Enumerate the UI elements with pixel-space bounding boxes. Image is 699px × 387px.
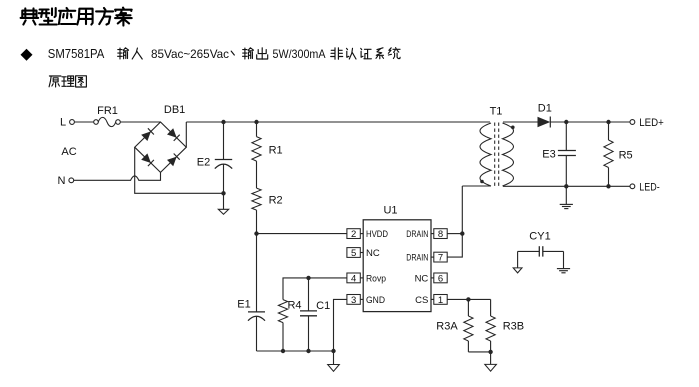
pin 7 DRAIN <box>406 252 447 264</box>
junction HVDD node <box>254 231 258 235</box>
pin 8 DRAIN <box>406 229 447 241</box>
junction top rail E2 <box>221 120 225 124</box>
wire secondary bottom rail <box>503 185 630 187</box>
resistor R3B <box>486 299 495 352</box>
pin 1 CS <box>415 295 447 307</box>
ground primary at GND rail <box>328 351 340 371</box>
wire R3A to R3B bottom <box>468 351 490 353</box>
svg-text:Rovp: Rovp <box>366 274 386 285</box>
svg-text:2: 2 <box>351 229 356 240</box>
junction drain node <box>460 231 464 235</box>
wire FR1 to DB1 <box>120 121 160 123</box>
ground secondary at E3 <box>560 186 573 208</box>
transformer T1 core <box>495 123 499 187</box>
junction C1 Rovp <box>306 276 310 280</box>
capacitor CY1 <box>518 246 564 256</box>
wire L to FR1 <box>74 121 93 123</box>
svg-text:N: N <box>58 175 66 187</box>
svg-text:E1: E1 <box>237 298 250 310</box>
wire HVDD node to E1 <box>256 234 258 312</box>
svg-text:E3: E3 <box>542 148 555 160</box>
fuse FR1 <box>94 117 121 126</box>
pin 6 NC <box>415 273 448 285</box>
svg-text:1: 1 <box>438 295 443 306</box>
wire pin 8 to drain node <box>447 233 462 235</box>
pin 2 HVDD <box>347 229 388 241</box>
bridge rectifier DB1 <box>135 122 187 172</box>
wire top rail <box>186 121 490 123</box>
svg-text:8: 8 <box>438 229 443 240</box>
svg-text:T1: T1 <box>490 106 503 118</box>
svg-text:R5: R5 <box>619 149 633 161</box>
junction CS R3A <box>466 297 470 301</box>
svg-text:LED+: LED+ <box>639 117 664 129</box>
resistor R3A <box>464 299 473 352</box>
wire primary ground rail <box>257 350 334 352</box>
junction E2 negative <box>221 191 225 195</box>
text 、 <box>231 51 234 55</box>
wire D1 to LED+ <box>550 121 630 123</box>
text 输入 <box>118 48 143 59</box>
svg-text:E2: E2 <box>197 156 210 168</box>
capacitor E1 <box>248 312 265 351</box>
junction R4 ground <box>281 349 285 353</box>
resistor R1 <box>252 122 261 161</box>
wire secondary top to D1 <box>503 121 538 123</box>
svg-text:R4: R4 <box>287 299 301 311</box>
title 典型应用方案 <box>21 8 132 26</box>
wire pin 7 to drain riser <box>447 186 462 257</box>
transformer T1 secondary winding <box>503 123 514 186</box>
text 非认证系统 <box>331 48 400 60</box>
svg-text:R1: R1 <box>269 144 283 156</box>
terminal L <box>70 120 75 125</box>
svg-text:DRAIN: DRAIN <box>406 229 428 240</box>
junction C1 ground <box>306 349 310 353</box>
svg-text:L: L <box>60 117 66 129</box>
wire GND pin to ground rail <box>334 299 347 351</box>
junction E3 bottom <box>564 184 568 188</box>
wire DB1 negative rail <box>135 147 224 193</box>
junction R5 top <box>606 120 610 124</box>
svg-text:7: 7 <box>438 253 443 264</box>
junction R3 ground <box>488 350 492 354</box>
transformer T1 secondary polarity dot <box>511 126 515 130</box>
svg-text:CS: CS <box>415 295 428 306</box>
wire DB1 positive to top rail <box>185 122 187 147</box>
svg-text:FR1: FR1 <box>97 105 118 117</box>
resistor R2 <box>252 188 261 210</box>
svg-text:C1: C1 <box>316 300 330 312</box>
svg-text:SM7581PA: SM7581PA <box>48 47 105 61</box>
wire R1 to R2 <box>256 161 258 188</box>
wire R2 to HVDD junction <box>256 210 258 234</box>
svg-text:R2: R2 <box>269 195 283 207</box>
ground primary at E2 <box>218 193 228 214</box>
svg-text:3: 3 <box>351 295 356 306</box>
ground primary at R3 <box>485 352 497 371</box>
text 输出 <box>243 48 268 60</box>
text 原理图 <box>49 76 86 87</box>
svg-text:CY1: CY1 <box>529 231 550 243</box>
pin 4 Rovp <box>347 273 386 285</box>
junction R5 bottom <box>606 184 610 188</box>
svg-text:R3A: R3A <box>436 320 458 332</box>
terminal LED+ <box>630 120 635 125</box>
pin 5 NC <box>347 248 380 260</box>
wire HVDD node to pin 2 <box>257 233 347 235</box>
transformer T1 primary polarity dot <box>480 180 484 184</box>
resistor R5 <box>604 122 613 186</box>
svg-text:LED-: LED- <box>639 181 660 193</box>
capacitor C1 <box>300 278 317 351</box>
capacitor E2 <box>215 122 232 193</box>
svg-text:HVDD: HVDD <box>366 229 388 240</box>
ground primary at CY1 left <box>513 251 522 273</box>
svg-text:85Vac~265Vac: 85Vac~265Vac <box>151 47 229 61</box>
wire N to DB1 with crossover hop <box>74 172 161 180</box>
svg-text:4: 4 <box>351 273 356 284</box>
pin 3 GND <box>347 295 385 307</box>
capacitor E3 <box>558 122 576 186</box>
wire pin 1 CS to R3B <box>447 298 490 300</box>
terminal N <box>69 178 74 183</box>
svg-text:NC: NC <box>415 274 429 285</box>
svg-text:GND: GND <box>366 295 385 306</box>
diode D1 <box>538 117 551 128</box>
wire drain riser to transformer primary <box>462 185 491 187</box>
wire Rovp net <box>283 278 347 300</box>
ground earth at CY1 right <box>557 251 570 272</box>
terminal LED- <box>630 184 635 189</box>
bullet diamond <box>21 49 33 61</box>
IC U1 body <box>363 220 431 312</box>
svg-text:D1: D1 <box>538 102 552 114</box>
svg-text:U1: U1 <box>383 205 397 217</box>
junction ground rail end <box>331 349 335 353</box>
svg-text:DB1: DB1 <box>164 104 185 116</box>
svg-text:6: 6 <box>438 273 443 284</box>
transformer T1 primary winding <box>480 123 491 186</box>
junction top rail R1 <box>254 120 258 124</box>
svg-text:NC: NC <box>366 248 380 259</box>
svg-text:R3B: R3B <box>503 320 524 332</box>
svg-text:5W/300mA: 5W/300mA <box>273 47 326 61</box>
svg-text:5: 5 <box>351 248 356 259</box>
junction E3 top <box>564 120 568 124</box>
resistor R4 <box>278 300 287 351</box>
svg-text:DRAIN: DRAIN <box>406 253 428 264</box>
svg-text:AC: AC <box>61 146 76 158</box>
